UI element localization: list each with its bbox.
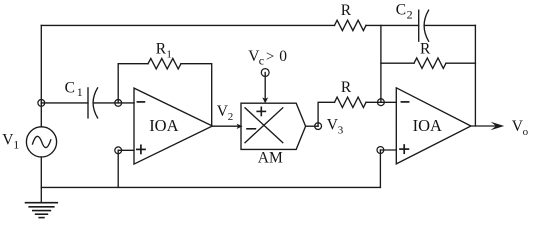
wire Vc control drop into AM (264, 73, 266, 99)
label R1 (156, 41, 172, 61)
wire V3 node up and to input R (318, 102, 334, 126)
label V3 (327, 117, 344, 137)
op-amp U2 (IOA) triangle (396, 88, 471, 164)
wire top rail left segment (41, 24, 334, 26)
resistor R (top feedback) (335, 20, 367, 30)
svg-text:2: 2 (407, 7, 413, 21)
terminal circle Vc (261, 69, 269, 77)
op-amp U2 minus sign (401, 101, 408, 103)
svg-text:IOA: IOA (413, 116, 442, 135)
wire input node to C1 (41, 102, 88, 104)
arrowhead V2 into AM (237, 124, 243, 129)
node V3 (315, 123, 322, 130)
wire U2 + input stub (380, 149, 396, 151)
svg-text:AM: AM (258, 150, 283, 167)
svg-text:o: o (523, 126, 529, 138)
wire parallel-R branch left segment (381, 62, 414, 64)
ground (26, 203, 58, 218)
op-amp U2 plus sign (400, 145, 408, 153)
wire from C2 to right vertical (424, 24, 475, 26)
wire junction vertical x=381 (top rail to inverting node) (380, 25, 382, 102)
wire R1 right to op-amp U1 output (181, 64, 212, 126)
label C2 (396, 2, 413, 22)
wire V2 output to AM (212, 125, 238, 127)
label Vo (512, 118, 529, 138)
wire V1 top stub (40, 103, 42, 127)
label V1 (2, 132, 19, 152)
source V1 sine wave (33, 136, 51, 147)
wire parallel-R branch right segment (446, 62, 475, 64)
svg-text:1: 1 (166, 48, 172, 60)
multiplier AM plus sign (257, 107, 265, 115)
node U1 inverting input (115, 100, 122, 107)
resistor R (parallel feedback) (414, 58, 446, 68)
svg-text:C: C (396, 2, 406, 19)
label Vc > 0 (248, 48, 287, 68)
svg-text:R: R (156, 41, 167, 58)
svg-text:C: C (65, 79, 75, 96)
op-amp U1 minus sign (137, 101, 144, 103)
arrowhead Vo output (491, 122, 505, 130)
op-amp U1 (IOA) triangle (134, 88, 212, 164)
node U2 non-inverting input (377, 147, 384, 154)
wire from top R to C2 left plate (366, 24, 419, 26)
arrowhead Vc down into AM (262, 97, 268, 103)
wire U2 output to Vo arrow (471, 125, 497, 127)
wire bottom ground rail (41, 186, 380, 188)
svg-text:c: c (259, 54, 264, 68)
wire AM output to node V3 (306, 125, 319, 127)
svg-text:0: 0 (279, 48, 287, 65)
wire C1 to op-amp inverting node (93, 102, 134, 104)
node U2 inverting input (378, 99, 385, 106)
wire top-left vertical from top rail to input node (40, 25, 42, 103)
wire right feedback vertical (474, 25, 476, 126)
wire V1 bottom stub to ground (40, 157, 42, 203)
wire U2 + input ground drop (379, 150, 381, 187)
svg-text:R: R (341, 79, 352, 96)
svg-text:>: > (266, 49, 274, 65)
resistor R (input to U2) (335, 97, 367, 107)
svg-text:R: R (420, 40, 431, 57)
source V1 circle (26, 127, 56, 157)
label V2 (217, 103, 234, 123)
label C1 (65, 79, 83, 99)
wire U1 + input ground drop (117, 150, 119, 187)
capacitor C2 (419, 10, 429, 41)
svg-text:2: 2 (228, 111, 234, 123)
svg-text:1: 1 (77, 85, 83, 99)
svg-text:R: R (341, 2, 352, 19)
node input A (38, 100, 45, 107)
wire input R to U2 inverting node (366, 101, 396, 103)
resistor R1 (148, 59, 181, 69)
wire R1 feedback loop (118, 64, 148, 103)
multiplier AM block outline (241, 103, 306, 149)
svg-text:IOA: IOA (149, 116, 178, 135)
multiplier AM X cross (245, 108, 283, 143)
op-amp U1 plus sign (137, 145, 145, 153)
node U1 non-inverting input (115, 147, 122, 154)
multiplier AM minus sign (247, 128, 255, 130)
svg-text:3: 3 (338, 125, 344, 137)
capacitor C1 (88, 88, 98, 118)
wire U1 + input stub (118, 149, 134, 151)
svg-text:1: 1 (13, 138, 19, 152)
